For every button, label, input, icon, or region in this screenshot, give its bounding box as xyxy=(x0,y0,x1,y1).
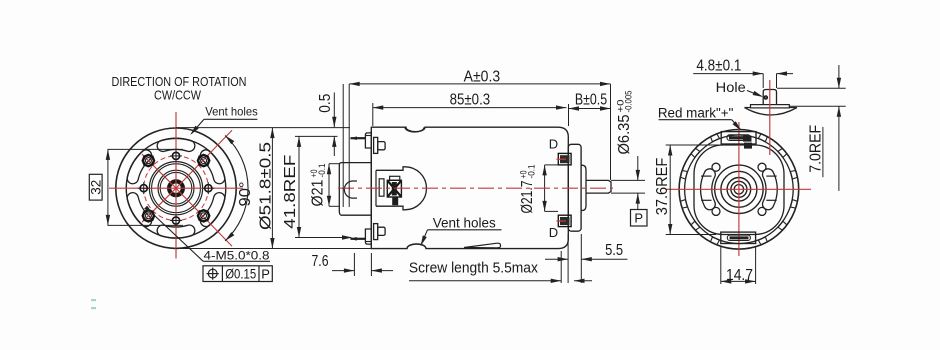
dimension Dia21 text xyxy=(309,164,328,207)
dimension 14.7 line with arrows xyxy=(721,280,756,282)
dimension Dia51.8 extension lines xyxy=(176,128,371,249)
rear view end cap rounded square xyxy=(694,145,784,235)
dimension 7.0REF line with arrows xyxy=(838,65,840,88)
rear view screw holes xyxy=(712,163,766,215)
dimension 41.8REF extension lines xyxy=(295,136,353,239)
svg-text:P: P xyxy=(261,266,270,281)
dimension B line with arrows xyxy=(569,108,611,110)
svg-text:Screw length 5.5max: Screw length 5.5max xyxy=(409,260,538,277)
angle arc 90 degrees xyxy=(225,136,248,241)
side view brush cap xyxy=(390,176,400,180)
svg-text:4-M5.0*0.8: 4-M5.0*0.8 xyxy=(204,248,270,262)
hat profile brim xyxy=(751,105,790,108)
dimension Dia21.7 lines and arrows xyxy=(544,165,546,212)
side view shaft xyxy=(586,180,611,193)
face view red center lines xyxy=(109,112,243,259)
dimension 37.6REF extension lines xyxy=(666,144,720,146)
svg-text:7.6: 7.6 xyxy=(312,253,329,270)
side view top mounting tab xyxy=(365,133,371,148)
face view vent hole slots xyxy=(127,138,225,238)
side view motor body outline xyxy=(371,127,568,248)
side view front mounting face xyxy=(370,131,372,246)
svg-text:-0.1: -0.1 xyxy=(317,164,328,178)
side view brush housing xyxy=(376,167,427,210)
dimension 32 line with arrows xyxy=(107,149,109,225)
dimension Dia6.35 text xyxy=(616,91,635,155)
dimension 0.5 lines and arrows xyxy=(333,93,335,128)
face view outer circle xyxy=(116,128,236,248)
dimension B extension line xyxy=(568,104,570,126)
svg-text:D: D xyxy=(549,225,558,240)
rear view right curved vent slot xyxy=(762,169,777,210)
face view red bolt circle dashed xyxy=(144,156,209,221)
rear view outer circle xyxy=(679,130,799,250)
svg-text:A±0.3: A±0.3 xyxy=(464,68,501,85)
svg-text:41.8REF: 41.8REF xyxy=(282,155,299,229)
face view hub circles xyxy=(149,162,202,215)
side view bottom edge notch xyxy=(407,244,426,249)
dimension 85 extension line xyxy=(372,103,374,126)
side view brush spring tail xyxy=(392,197,398,205)
side view bearing bump xyxy=(344,181,357,198)
side view top D tab xyxy=(558,153,571,165)
svg-text:Ø51.8±0.5: Ø51.8±0.5 xyxy=(258,142,275,230)
svg-text:B±0.5: B±0.5 xyxy=(575,92,607,109)
dimension 4.8 extension lines xyxy=(762,74,764,88)
dimension 85 line with arrows xyxy=(373,107,567,109)
svg-text:Vent holes: Vent holes xyxy=(205,105,258,119)
svg-text:-0.1: -0.1 xyxy=(526,165,537,179)
side view bottom D tab xyxy=(558,215,571,226)
hat red center line xyxy=(769,80,771,155)
svg-text:Ø21: Ø21 xyxy=(310,180,327,207)
svg-text:-0.005: -0.005 xyxy=(624,91,635,113)
svg-text:Ø21.7: Ø21.7 xyxy=(519,181,536,214)
dimension 7.6 extension lines xyxy=(353,253,355,276)
side view brush holder plate xyxy=(379,179,384,196)
dimension 32 extension lines xyxy=(108,149,184,225)
svg-text:85±0.3: 85±0.3 xyxy=(450,92,491,109)
hat profile curved shell xyxy=(745,108,798,116)
side view front boss step xyxy=(339,163,371,216)
feature control frame position Dia0.15 P xyxy=(203,266,272,282)
side view bottom mounting tab xyxy=(365,229,371,244)
dimension 5.5 line with arrows xyxy=(545,258,568,260)
svg-text:0.5: 0.5 xyxy=(317,94,334,113)
side view bottom vent slot sliver xyxy=(464,243,501,248)
dimension 7.6 line with arrows xyxy=(332,270,354,272)
face view red diagonal lines xyxy=(142,130,232,246)
dimension A extension lines xyxy=(342,84,344,207)
rear cap extension lines below xyxy=(560,251,562,283)
dimension 7.0REF extension lines xyxy=(777,87,846,89)
rear view left curved vent slot xyxy=(701,169,716,210)
face view small bolt holes xyxy=(138,150,215,227)
svg-text:7.0REF: 7.0REF xyxy=(807,125,824,173)
svg-text:5.5: 5.5 xyxy=(605,242,623,259)
dimension Dia21 lines and arrows xyxy=(328,164,330,207)
dimension screw length line with arrows xyxy=(409,280,561,282)
svg-text:D: D xyxy=(549,137,558,152)
face view inner circle xyxy=(126,138,226,238)
dimension Dia51.8 line with arrows xyxy=(271,128,273,249)
dimension 32 boxed text xyxy=(89,174,102,200)
side view end cap xyxy=(568,144,581,231)
rear view bottom brush cap xyxy=(721,232,756,243)
svg-text:Ø6.35: Ø6.35 xyxy=(616,115,633,155)
side view bottom tab screw shank xyxy=(351,238,366,240)
svg-text:90°: 90° xyxy=(237,182,254,207)
rear view rim crimp notches xyxy=(681,134,797,244)
side view top edge notch xyxy=(405,127,424,132)
hat profile neck xyxy=(763,90,776,105)
svg-text:Ø0.15: Ø0.15 xyxy=(225,266,256,281)
dimension 41.8REF line with arrows xyxy=(298,136,300,237)
side view brush box with cross xyxy=(387,180,401,197)
rear view inner rim circle xyxy=(685,135,794,244)
dimension 14.7 extension lines xyxy=(720,246,722,284)
svg-text:14.7: 14.7 xyxy=(726,267,753,284)
face view 4-M5 screw holes xyxy=(143,155,209,221)
svg-text:Hole: Hole xyxy=(716,80,746,95)
svg-text:Vent holes: Vent holes xyxy=(433,215,496,231)
svg-text:32: 32 xyxy=(87,179,103,194)
svg-text:4.8±0.1: 4.8±0.1 xyxy=(696,57,741,74)
svg-text:Red mark"+": Red mark"+" xyxy=(658,105,734,120)
rear view top brush cap xyxy=(721,132,756,144)
svg-text:P: P xyxy=(634,211,643,226)
datum P flag xyxy=(631,210,648,227)
rear view red center lines xyxy=(666,122,811,256)
side view red center line dash-dot xyxy=(338,187,613,189)
side view end cap spigot xyxy=(581,165,586,210)
dimension Dia6.35 lines and arrows xyxy=(611,179,645,181)
dimension 4.8 line with arrows xyxy=(693,73,763,75)
svg-text:37.6REF: 37.6REF xyxy=(654,158,671,216)
svg-text:CW/CCW: CW/CCW xyxy=(154,88,202,103)
side view top screw plate and head xyxy=(374,137,378,153)
rear view center boss circles xyxy=(715,165,763,213)
dimension Dia21.7 text xyxy=(518,165,537,214)
dimension 37.6REF line with arrows xyxy=(669,145,671,235)
dimension A line with arrows xyxy=(349,83,610,85)
stray teal marks bottom left xyxy=(91,299,96,301)
hat hole dot xyxy=(764,96,767,99)
side view bottom screw plate and head xyxy=(374,224,378,240)
side view top tab screw shank xyxy=(351,137,366,139)
